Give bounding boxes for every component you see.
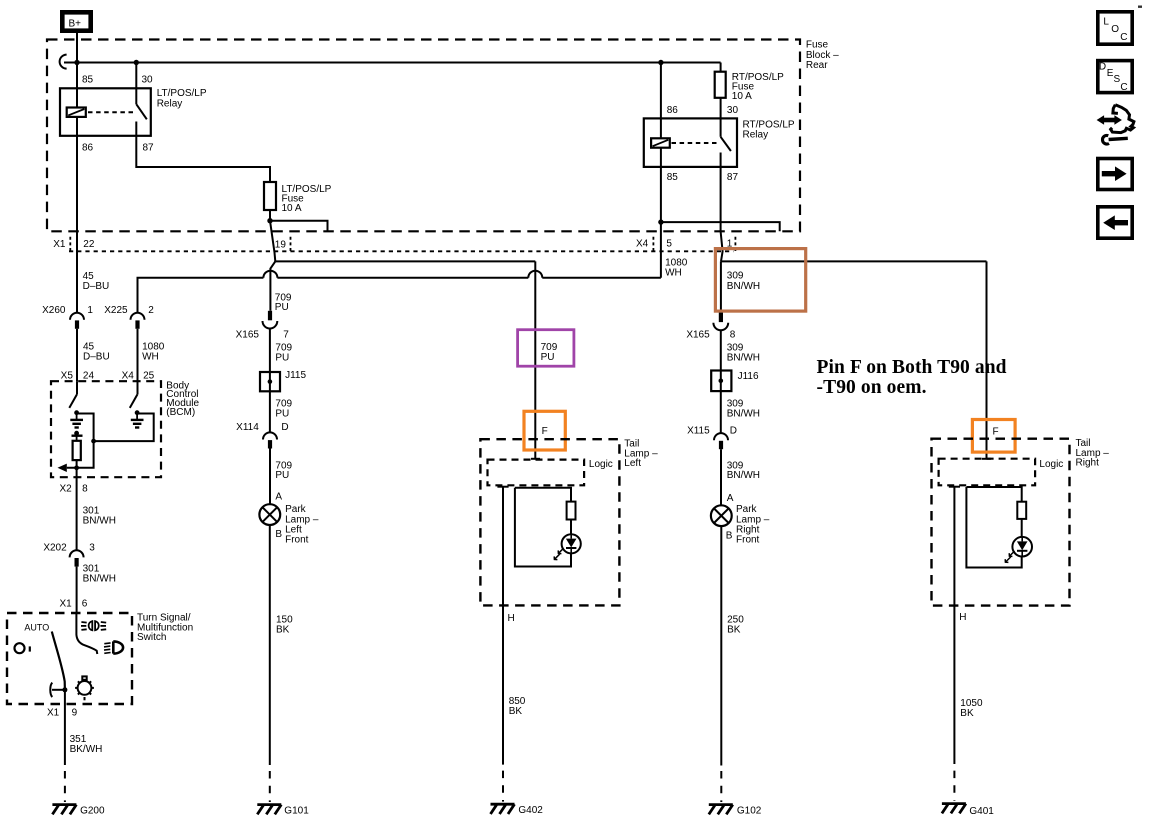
- svg-text:B: B: [275, 529, 282, 540]
- wire 309 BN/WH to tail lamp right: [986, 261, 988, 458]
- LED loop left: [515, 488, 571, 567]
- relay LT coil-switch link: [88, 111, 133, 113]
- svg-text:85: 85: [667, 172, 679, 183]
- svg-text:Right: Right: [1076, 458, 1100, 469]
- svg-text:2: 2: [148, 305, 154, 316]
- svg-text:H: H: [959, 612, 966, 623]
- park lamp right front: [711, 505, 732, 526]
- svg-text:PU: PU: [275, 470, 289, 481]
- svg-text:F: F: [993, 426, 999, 437]
- svg-text:PU: PU: [275, 408, 289, 419]
- svg-text:BK: BK: [960, 708, 974, 719]
- svg-text:H: H: [508, 613, 515, 624]
- svg-text:X2: X2: [59, 484, 72, 495]
- highlight box 309 BN/WH: [715, 249, 805, 312]
- wire branch to second terminal right: [661, 222, 780, 231]
- crossover hop at 709 left: [263, 271, 277, 278]
- svg-text:1: 1: [87, 305, 93, 316]
- wire B+ down: [76, 33, 78, 63]
- svg-text:X225: X225: [104, 305, 128, 316]
- svg-text:C: C: [1120, 82, 1127, 93]
- svg-text:X260: X260: [42, 305, 66, 316]
- headlamp icon: [104, 643, 111, 653]
- svg-text:X115: X115: [687, 426, 710, 437]
- node below LT fuse: [267, 218, 272, 223]
- wire 45 D-BU lower: [76, 329, 78, 381]
- wire 309 distribution: [721, 260, 987, 262]
- svg-text:BN/WH: BN/WH: [83, 573, 116, 584]
- wire H output right: [949, 486, 960, 488]
- svg-text:BN/WH: BN/WH: [83, 516, 116, 527]
- nav icon arrow back: [1098, 207, 1132, 238]
- svg-text:BN/WH: BN/WH: [727, 352, 760, 363]
- wire main bus: [64, 62, 721, 64]
- body control module dashed box: [51, 381, 161, 477]
- wire 301 BN/WH lower: [76, 567, 78, 613]
- splice J115: [260, 372, 280, 391]
- svg-text:L: L: [1103, 16, 1109, 27]
- relay LT/POS/LP: [60, 88, 151, 136]
- LED lamp left: [562, 534, 581, 553]
- wire dashed to G401: [953, 771, 955, 801]
- park lamp icon: [81, 621, 106, 630]
- BCM ground 2: [135, 410, 140, 415]
- svg-text:9: 9: [72, 708, 78, 719]
- svg-text:BN/WH: BN/WH: [727, 470, 760, 481]
- fuse block rear dashed box: [47, 40, 800, 232]
- wire 709 PU 2: [269, 329, 271, 373]
- svg-text:10 A: 10 A: [282, 203, 302, 214]
- svg-text:AUTO: AUTO: [24, 622, 49, 632]
- wire 250 BK: [720, 526, 722, 765]
- svg-text:BK: BK: [727, 625, 741, 636]
- LED loop right: [966, 487, 1021, 568]
- wire 709 PU to tail lamp left: [534, 261, 536, 458]
- connector row X1/X4 dashed lines: [69, 250, 734, 252]
- tail lamp left dashed box: [480, 439, 619, 605]
- svg-text:D: D: [281, 422, 288, 433]
- wire pin1 slant: [721, 167, 723, 262]
- svg-text:X165: X165: [236, 330, 260, 341]
- park lamp left front: [259, 504, 280, 525]
- svg-text:6: 6: [82, 598, 88, 609]
- wire 309 BN/WH 3: [720, 391, 722, 433]
- wire 709 PU 4: [269, 449, 271, 505]
- svg-text:19: 19: [275, 239, 287, 250]
- BCM wire from ground1 node: [77, 414, 94, 442]
- wire relay87 to fuse: [136, 136, 270, 182]
- LED light rays left: [554, 548, 563, 559]
- wire 1080 WH riser: [138, 278, 661, 313]
- svg-text:D–BU: D–BU: [83, 352, 110, 363]
- wire 45 D-BU: [76, 136, 78, 313]
- wire 301 BN/WH: [76, 477, 78, 550]
- wire terminal tick: [531, 458, 540, 460]
- svg-text:7: 7: [283, 330, 289, 341]
- highlight box 709 PU purple: [518, 330, 574, 367]
- svg-text:B: B: [726, 531, 733, 542]
- svg-text:Rear: Rear: [806, 60, 828, 71]
- resistor in BCM: [73, 441, 81, 460]
- svg-text:X202: X202: [43, 542, 67, 553]
- nav icon double arrow: [1102, 118, 1116, 123]
- svg-text:Relay: Relay: [157, 98, 183, 109]
- wire dashed to G200: [64, 771, 66, 802]
- speck: [1138, 6, 1142, 8]
- LED light rays right: [1005, 551, 1014, 562]
- svg-text:8: 8: [82, 484, 88, 495]
- fuse LT/POS/LP 10A: [264, 182, 276, 210]
- svg-text:WH: WH: [665, 268, 682, 279]
- ground G402: [491, 804, 515, 814]
- switch lever AUTO: [52, 632, 65, 690]
- svg-text:87: 87: [143, 143, 155, 154]
- node bus-30: [134, 60, 139, 65]
- wire 150 BK: [269, 525, 271, 765]
- connector X165 pin 7: [268, 311, 272, 321]
- splice J116: [711, 371, 731, 392]
- svg-text:X4: X4: [636, 238, 649, 249]
- wire pin19 slant: [270, 221, 275, 262]
- svg-text:A: A: [275, 491, 282, 502]
- wire 309 BN/WH 2: [720, 330, 722, 370]
- svg-text:BN/WH: BN/WH: [727, 281, 760, 292]
- svg-text:24: 24: [83, 370, 95, 381]
- BCM switch 1: [76, 381, 78, 394]
- svg-text:X1: X1: [53, 239, 66, 250]
- svg-text:X4: X4: [122, 370, 135, 381]
- battery feed B+: [62, 12, 90, 30]
- relay RT coil: [651, 138, 670, 147]
- node below relay RT 85: [658, 219, 663, 224]
- BCM bottom node: [74, 465, 79, 470]
- relay LT coil: [67, 108, 86, 117]
- svg-text:G101: G101: [284, 806, 309, 817]
- svg-text:X5: X5: [61, 370, 74, 381]
- svg-text:3: 3: [89, 542, 95, 553]
- highlight box pin F orange left: [524, 411, 565, 450]
- svg-text:22: 22: [83, 239, 95, 250]
- svg-text:J115: J115: [285, 370, 306, 381]
- BCM wire node B down: [67, 441, 94, 468]
- svg-text:X165: X165: [686, 330, 710, 341]
- BCM ground 1: [74, 410, 79, 415]
- connector X225 pin 2: [131, 313, 145, 320]
- svg-text:G200: G200: [80, 806, 105, 817]
- fuse RT/POS/LP 10A: [720, 63, 722, 72]
- svg-text:D–BU: D–BU: [83, 281, 110, 292]
- LED lamp right: [1012, 537, 1032, 557]
- wire continuation hook: [60, 55, 67, 69]
- svg-text:10 A: 10 A: [732, 91, 752, 102]
- svg-text:C: C: [1120, 32, 1127, 43]
- BCM node B: [91, 439, 96, 444]
- logic module dashed box left: [488, 460, 585, 486]
- svg-text:BK/WH: BK/WH: [70, 744, 103, 755]
- svg-text:G102: G102: [737, 806, 762, 817]
- svg-text:30: 30: [727, 105, 739, 116]
- logic module dashed box right: [939, 459, 1036, 486]
- node bus-86: [658, 60, 663, 65]
- relay RT coil-switch link: [672, 142, 718, 144]
- wire H output left: [497, 486, 508, 488]
- nav icon vehicle-wrench: [1111, 105, 1134, 133]
- svg-text:85: 85: [82, 75, 94, 86]
- wire dashed to G402: [502, 771, 504, 802]
- svg-text:B+: B+: [69, 19, 82, 30]
- svg-text:Front: Front: [736, 535, 760, 546]
- wire fuse LT down: [269, 210, 271, 221]
- wire dashed to G101: [269, 771, 271, 802]
- svg-text:F: F: [542, 426, 548, 437]
- svg-text:X1: X1: [47, 708, 60, 719]
- crossover hop at 709 right: [528, 271, 542, 278]
- svg-text:J116: J116: [738, 371, 759, 382]
- svg-text:D: D: [730, 426, 737, 437]
- svg-text:G402: G402: [518, 805, 543, 816]
- auto-position icon: [15, 643, 25, 653]
- svg-text:G401: G401: [969, 806, 994, 817]
- wire 709 distribution: [275, 260, 535, 262]
- connector X165 pin 8: [719, 313, 723, 323]
- highlight box pin F orange right: [972, 420, 1015, 453]
- svg-text:86: 86: [82, 143, 94, 154]
- wire into switch with contact curve: [76, 613, 97, 654]
- wire branch to second terminal: [270, 221, 328, 232]
- BCM wire from ground2 node: [94, 414, 154, 442]
- svg-text:D: D: [1099, 61, 1106, 72]
- switch pivot: [62, 687, 67, 692]
- svg-text:8: 8: [730, 330, 736, 341]
- svg-text:A: A: [727, 493, 734, 504]
- ground G200: [52, 805, 76, 815]
- switch knob icon: [75, 676, 94, 700]
- nav icon arrow next: [1098, 159, 1132, 190]
- svg-text:X1: X1: [59, 598, 72, 609]
- turn signal / multifunction switch dashed box: [7, 613, 132, 704]
- tail lamp right dashed box: [932, 439, 1070, 606]
- wire relay RT 85 down: [660, 167, 662, 278]
- LED resistor right: [1017, 502, 1026, 519]
- svg-text:O: O: [1111, 24, 1119, 35]
- node bus-85: [74, 60, 79, 65]
- svg-text:Switch: Switch: [137, 632, 166, 643]
- svg-text:25: 25: [143, 370, 155, 381]
- svg-text:X114: X114: [236, 422, 259, 433]
- svg-text:PU: PU: [541, 352, 555, 363]
- ground G102: [709, 805, 733, 815]
- BCM resistor contact: [74, 431, 79, 436]
- ground G401: [942, 804, 966, 814]
- svg-text:5: 5: [666, 238, 672, 249]
- relay RT/POS/LP: [644, 118, 737, 166]
- svg-text:BK: BK: [276, 625, 290, 636]
- svg-text:(BCM): (BCM): [166, 407, 195, 418]
- svg-text:BN/WH: BN/WH: [727, 408, 760, 419]
- wire 1080 WH lower: [137, 329, 139, 381]
- svg-text:WH: WH: [142, 352, 159, 363]
- LED resistor left: [567, 502, 576, 520]
- svg-text:Relay: Relay: [743, 130, 769, 141]
- svg-text:BK: BK: [509, 706, 523, 717]
- svg-text:30: 30: [142, 75, 154, 86]
- svg-text:-T90 on oem.: -T90 on oem.: [817, 377, 927, 398]
- svg-text:87: 87: [727, 172, 739, 183]
- svg-text:Logic: Logic: [1039, 459, 1063, 470]
- wire 309 BN/WH 4: [720, 449, 722, 505]
- svg-text:Pin F on Both T90 and: Pin F on Both T90 and: [817, 357, 1007, 378]
- nav icon DESC: [1098, 61, 1132, 93]
- svg-text:Left: Left: [624, 458, 641, 469]
- ground G101: [257, 805, 281, 815]
- relay LT switch: [135, 88, 137, 104]
- BCM output arrow: [58, 464, 67, 472]
- nav icon wrench: [1109, 138, 1128, 139]
- wire 351 BK/WH: [64, 690, 66, 765]
- relay RT switch: [720, 118, 722, 136]
- svg-text:86: 86: [667, 105, 679, 116]
- wire terminal tick right: [982, 458, 991, 460]
- nav icon LOC: [1098, 12, 1132, 44]
- svg-text:Logic: Logic: [589, 459, 613, 470]
- svg-text:PU: PU: [275, 352, 289, 363]
- svg-text:Front: Front: [285, 535, 309, 546]
- BCM switch 2: [137, 381, 139, 394]
- svg-text:PU: PU: [275, 302, 289, 313]
- wire 709 PU 3: [269, 391, 271, 432]
- wire dashed to G102: [720, 771, 722, 802]
